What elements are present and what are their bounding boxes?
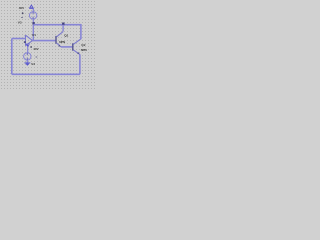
left feedback riser wire bbox=[11, 39, 13, 75]
wire: top +V rail bbox=[34, 24, 81, 26]
wire: rail corner down to Q2 collector bbox=[80, 24, 82, 39]
V3 internal battery marks bbox=[32, 12, 34, 15]
svg-text:40V: 40V bbox=[33, 47, 39, 51]
node B junction dot on rail bbox=[62, 23, 64, 25]
svg-text:V2: V2 bbox=[31, 62, 35, 66]
grid dots bbox=[0, 0, 95, 89]
wire: node B down to Q1 collector bbox=[62, 25, 64, 32]
wire: Q2 emitter down to bottom rail bbox=[79, 54, 81, 74]
feedback wire into op-amp inverting input bbox=[12, 38, 26, 40]
transistor Q1 bbox=[55, 32, 63, 47]
ground terminal down arrow bbox=[25, 63, 29, 65]
V2 minus polarity mark bbox=[36, 56, 38, 58]
op-amp output wire to Q1 base bbox=[32, 40, 56, 42]
svg-text:40V: 40V bbox=[19, 6, 25, 10]
op-amp U1 triangle bbox=[26, 35, 33, 46]
ground terminal T-bar bbox=[24, 62, 30, 64]
voltage source V3 (circle) bbox=[29, 12, 36, 19]
svg-text:NPN: NPN bbox=[59, 40, 66, 44]
wire: V3 bottom to node A bbox=[32, 19, 34, 25]
transistor Q2 bbox=[72, 39, 81, 55]
V2 plus polarity mark bbox=[30, 46, 32, 48]
svg-text:Q2: Q2 bbox=[81, 43, 85, 47]
op-amp V- supply T-bar bbox=[26, 43, 30, 45]
voltage source V2 (circle) bbox=[24, 53, 31, 60]
svg-text:V3: V3 bbox=[18, 21, 22, 25]
bottom feedback rail wire bbox=[12, 73, 80, 75]
V- supply down arrow bbox=[27, 45, 30, 47]
V2 internal battery marks bbox=[26, 53, 28, 56]
power terminal arrow (top, +40V) bbox=[29, 5, 33, 8]
wire: power arrow to V3 top bbox=[32, 9, 34, 12]
svg-text:NPN: NPN bbox=[81, 48, 88, 52]
op-amp V+ supply lead bbox=[32, 25, 34, 40]
V3 minus polarity mark bbox=[21, 16, 23, 18]
svg-text:U1: U1 bbox=[32, 33, 36, 37]
svg-text:Q1: Q1 bbox=[64, 34, 68, 38]
wire: V2 bottom lead bbox=[26, 60, 28, 63]
node A junction dot bbox=[32, 22, 34, 24]
op-amp plus input mark bbox=[24, 41, 26, 43]
op-amp input nub (top) bbox=[25, 35, 26, 37]
wire: arrow to V2 top bbox=[27, 47, 29, 53]
V3 plus polarity mark bbox=[22, 12, 24, 14]
canvas background bbox=[0, 0, 95, 89]
wire: Q1 emitter to Q2 base bbox=[61, 46, 72, 48]
text labels bbox=[18, 6, 88, 66]
